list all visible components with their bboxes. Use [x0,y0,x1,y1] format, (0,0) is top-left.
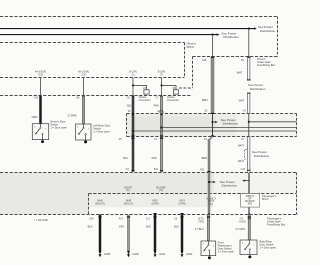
svg-text:(MOL/P): (MOL/P) [95,202,105,205]
svg-text:4R2: 4R2 [248,204,253,206]
node W3 option connector branch [132,84,151,102]
node W4 option connector branch [160,84,179,102]
svg-text:BLK: BLK [146,225,151,229]
svg-text:(C): (C) [126,189,130,192]
svg-text:A37: A37 [119,217,124,220]
node W6 branch arrow at band [242,180,249,182]
svg-text:* 1 SX-AND: * 1 SX-AND [34,218,48,222]
svg-text:BLK: BLK [88,225,93,229]
svg-text:Distribution: Distribution [254,154,270,158]
svg-text:(C9): (C9) [81,73,86,76]
node W3 reference label [129,71,137,77]
svg-text:G402: G402 [186,252,193,256]
node W5 branch arrow see power distribution [211,118,238,126]
svg-text:1 = Door open: 1 = Door open [218,249,235,253]
node Driver's MICU label [187,42,197,49]
svg-text:PNK: PNK [154,103,160,107]
node ref labels in sub-box [95,197,216,206]
ground G401 [154,251,166,258]
node left rear door switch label [93,124,110,134]
node W5 branch arrow at band [208,181,216,183]
node W6 pin G4 lower [239,217,246,223]
svg-text:WHT: WHT [238,143,244,147]
svg-text:Distribution: Distribution [223,35,239,39]
node shaded interior of multiplex control unit box [126,114,296,136]
svg-text:BLU: BLU [127,103,132,107]
svg-text:WHT: WHT [237,70,243,74]
component left rear door switch box [76,124,92,143]
ground G405 [99,251,111,258]
svg-text:A26: A26 [89,217,94,220]
component driver's door switch box [32,124,48,143]
node Driver's Under-dash Fuse/Relay Box label [257,57,276,67]
dashed boundary connector line [0,95,192,97]
dashed boundary under-dash fuse/relay box top [193,56,278,58]
ground G406 [127,251,139,258]
svg-text:GRY: GRY [119,225,125,229]
svg-text:(YW5): (YW5) [239,220,246,223]
node W2 reference label [78,71,89,77]
svg-text:Distribution: Distribution [223,121,239,125]
svg-text:(P): (P) [209,203,213,206]
dashed boundary bottom band top [0,172,297,174]
wire W6 WHT column [247,28,251,240]
node shared See Power Distribution label in band [220,180,238,188]
svg-text:Distribution: Distribution [260,29,276,33]
svg-text:Fuse/Relay Box: Fuse/Relay Box [267,223,286,227]
svg-text:(N): (N) [159,189,163,192]
svg-text:G406: G406 [133,252,140,256]
svg-text:LT BLU: LT BLU [195,227,204,231]
wire G4 ground wire BLK [180,213,183,251]
node See Power Distribution label second [221,31,239,39]
svg-text:(CRN): (CRN) [178,202,185,205]
ground G402 [181,251,193,258]
component power door lock control unit box [241,194,260,208]
wire bus line 2 in MICU box [160,127,296,129]
wire G2 ground wire GRY [127,215,130,252]
component right rear door switch box [240,240,257,258]
dashed boundary MICU middle box [127,114,297,137]
wire W5 BRN column [207,34,214,241]
svg-text:F28: F28 [202,59,207,62]
dashed boundary under-dash fuse/relay box bottom stub [179,87,193,89]
svg-text:(CRN): (CRN) [151,202,158,205]
wire G1 ground wire BLK [98,215,101,252]
svg-text:MICU: MICU [262,197,269,201]
svg-text:(7): (7) [160,73,163,76]
svg-text:BRN: BRN [202,98,208,102]
svg-text:PNK: PNK [152,156,158,160]
dashed boundary top [0,16,278,18]
dashed boundary driver's MICU right edge [184,43,186,78]
dashed boundary under-dash fuse/relay box left [192,57,194,89]
wire bus line 1 in MICU box [249,121,297,123]
dashed boundary driver's MICU top [0,42,185,44]
svg-text:Distribution: Distribution [222,183,238,187]
svg-text:LT BRN: LT BRN [68,114,77,118]
svg-text:G405: G405 [104,252,111,256]
svg-text:G401: G401 [159,252,166,256]
svg-text:BLK: BLK [174,225,179,229]
wire G3 ground wire BLK [153,213,156,251]
node W6 junction to bus [248,121,250,123]
dashed boundary connector sub-box top [89,193,297,195]
svg-text:(MOL/T): (MOL/T) [124,202,133,205]
svg-text:Distribution: Distribution [250,87,266,91]
svg-text:B11: B11 [154,168,159,171]
svg-text:Connector: Connector [139,98,151,102]
svg-text:Connector: Connector [167,98,179,102]
wire horizontal bus second (to See Power Distribution) [0,33,220,35]
node driver's door switch label [50,120,67,130]
component front passenger's door switch box [201,241,216,259]
svg-text:A26: A26 [200,168,205,171]
dashed boundary bottom band bottom [0,214,298,216]
node W1 reference label [35,71,46,77]
svg-text:Fuse/Relay Box: Fuse/Relay Box [257,63,276,67]
svg-text:1 = Door open: 1 = Door open [50,126,67,130]
node See Power Distribution label top right [258,25,276,33]
svg-text:(*R3): (*R3) [198,220,204,223]
wire W2 LT BRN left rear door switch [82,78,85,125]
svg-text:C14: C14 [241,168,246,171]
svg-text:GRN: GRN [32,115,38,119]
dashed boundary bottom band right [296,173,298,215]
node shaded interior of bottom control-unit band [0,173,296,215]
node W6 inline see power distribution gap [248,83,266,91]
node ref labels above sub-box [124,186,166,192]
wire W3 BLU [131,78,134,172]
svg-text:BLU: BLU [123,156,128,160]
node W4 reference label [158,71,166,77]
node right rear door switch label [259,239,276,249]
svg-text:LT GRN: LT GRN [236,227,245,231]
wire bus line 3 in MICU box [132,130,297,132]
svg-text:1 = Door open: 1 = Door open [93,130,110,134]
svg-text:MICU: MICU [187,45,194,49]
svg-text:(2): (2) [131,73,134,76]
wire W4 PNK [160,78,164,172]
wire W1 GRN driver's door switch [39,78,42,124]
svg-text:WHT: WHT [238,159,244,163]
svg-text:1 = Door open: 1 = Door open [259,245,276,249]
svg-text:BRN: BRN [202,156,208,160]
dashed boundary driver's MICU bottom [0,77,185,79]
node W6 dashed bracket see power distribution [245,149,270,159]
node W5 pin B75 [198,217,204,223]
svg-text:C43: C43 [34,96,39,99]
node front passenger's door switch label [218,240,235,253]
wire horizontal bus top (to See Power Distribution) [0,27,257,29]
node Passenger's MICU label [262,194,277,201]
dashed boundary right edge of power distribution box [277,17,279,57]
svg-text:WHT: WHT [239,98,245,102]
svg-text:(C9): (C9) [38,73,43,76]
dashed boundary connector sub-box left [88,194,90,215]
svg-text:D-1: D-1 [146,217,151,220]
node Passenger's Under-dash Fuse/Relay Box label [267,217,286,227]
